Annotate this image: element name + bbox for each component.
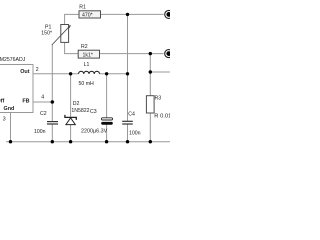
capacitor C3 (electrolytic)	[81, 109, 113, 134]
svg-text:R 0.01: R 0.01	[154, 114, 170, 120]
wire stub to right edge at y=72	[150, 71, 170, 73]
svg-text:1k1*: 1k1*	[83, 53, 93, 59]
svg-text:2: 2	[36, 67, 39, 73]
junction: ground rail at C3	[105, 140, 108, 143]
svg-text:C2: C2	[40, 111, 47, 117]
svg-text:470*: 470*	[82, 13, 93, 19]
svg-text:C3: C3	[90, 109, 97, 115]
wire D2 branch	[70, 74, 72, 142]
svg-text:1N5822: 1N5822	[71, 108, 89, 114]
junction: FB node at wiper line	[51, 100, 54, 103]
svg-text:D2: D2	[73, 101, 80, 107]
junction: ground rail at IC pin 3	[9, 140, 12, 143]
junction: sense node at R3 top	[149, 52, 152, 55]
wire P1 bottom lead and to R2	[65, 42, 79, 53]
svg-text:R1: R1	[79, 5, 86, 11]
wire IC pin 3 to ground rail	[10, 113, 12, 142]
svg-text:P1: P1	[45, 24, 51, 30]
svg-text:3: 3	[3, 117, 6, 123]
resistor R2	[78, 44, 99, 58]
junction: ground rail at R3	[149, 140, 152, 143]
junction: R3 stub node	[149, 70, 152, 73]
svg-text:R3: R3	[155, 96, 162, 102]
wire P1 wiper vertical down to FB and C2	[51, 45, 53, 142]
svg-text:50 mH: 50 mH	[79, 81, 95, 87]
junction: switch node at D2 cathode	[69, 72, 72, 75]
svg-text:C4: C4	[128, 112, 135, 118]
junction: output node at main vertical	[126, 72, 129, 75]
wire L1 to main vertical	[100, 73, 128, 75]
wire main output vertical x=127.5	[127, 14, 129, 141]
svg-text:100n: 100n	[34, 129, 46, 135]
wire ground rail	[6, 141, 170, 143]
svg-text:Off: Off	[0, 99, 4, 105]
resistor R1	[79, 5, 101, 19]
wire P1 top lead	[64, 14, 66, 24]
svg-text:Out: Out	[20, 69, 29, 75]
junction: ground rail at D2	[69, 140, 72, 143]
svg-text:2200µ6.3V: 2200µ6.3V	[81, 128, 108, 134]
connector J1 (top output terminal)	[165, 10, 173, 18]
connector J2 (second output terminal)	[165, 50, 173, 58]
wire R3 branch	[149, 54, 151, 142]
svg-text:FB: FB	[22, 99, 29, 105]
potentiometer P1	[41, 24, 71, 45]
wire FB pin	[33, 101, 55, 103]
inductor L1	[79, 71, 100, 73]
wire R1 right to output connector	[101, 13, 164, 15]
svg-text:LM2576ADJ: LM2576ADJ	[0, 57, 26, 63]
junction: output node at C3	[105, 72, 108, 75]
wire Out pin to L1	[33, 73, 79, 75]
junction: ground rail at C4	[126, 140, 129, 143]
resistor R3	[146, 96, 171, 120]
IC U1 LM2576ADJ regulator box	[0, 57, 33, 113]
svg-text:100n: 100n	[129, 130, 141, 136]
capacitor C4	[122, 121, 133, 124]
wire R2 right to second connector	[99, 53, 163, 55]
svg-text:150*: 150*	[41, 31, 52, 37]
svg-text:L1: L1	[84, 62, 90, 68]
diode D2 1N5822 (Schottky)	[65, 101, 90, 124]
wire top rail from P1 top corner to R1	[65, 13, 79, 15]
svg-text:R2: R2	[81, 44, 88, 50]
svg-text:Gnd: Gnd	[4, 106, 15, 112]
wire C3 branch	[106, 74, 108, 142]
junction: ground rail at C2	[51, 140, 54, 143]
junction: R1 output / top terminal node	[126, 13, 129, 16]
capacitor C2	[47, 122, 58, 124]
svg-text:4: 4	[41, 95, 44, 101]
